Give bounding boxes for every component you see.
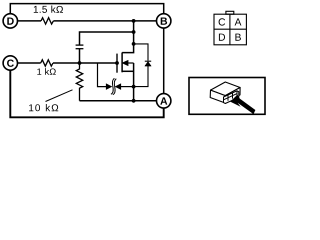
wire zener branch top [134,44,148,61]
node dot gate [115,61,119,65]
terminal C [3,56,17,70]
pin table [214,11,246,45]
junction dots [78,19,136,103]
wire top loop D to B [10,4,163,14]
wire D to resistor R1 [18,20,41,22]
node dot zener top [132,42,136,46]
label 1 kOhm [37,68,56,75]
terminal A [157,94,171,108]
node dot cap top [132,30,136,34]
label 10 kOhm [29,104,58,111]
zener diode D1 [145,61,151,65]
mosfet Q1 source stub [122,70,134,72]
resistor R2 1 kOhm [41,60,53,66]
capacitor C1 [76,45,84,49]
node dot cap bottom rail [78,61,82,65]
wire double-diode left leg [98,63,107,87]
mosfet Q1 channel bar [121,53,123,73]
wire capacitor top branch [80,32,134,45]
pin table labels [219,18,242,40]
connector view box [189,78,265,115]
wire resistor R2 to gate node [53,62,117,64]
node dot bottom [132,99,136,103]
mosfet Q1 drain stub [122,44,134,53]
wire source down to bottom node [133,63,135,101]
mosfet Q1 body arrow [123,61,128,66]
terminal B [157,14,171,28]
wire bottom node to A [80,100,157,102]
terminal D [3,14,17,28]
resistor R3 10 kOhm vertical [76,63,82,101]
leader line 10 kOhm [46,90,73,102]
connector icon pin block [224,91,239,104]
wire C down left side to bottom [10,71,163,118]
surge absorber double diode [107,78,134,94]
wire drain rail from top [133,21,135,44]
wire resistor R1 to B [53,20,156,22]
label 1.5 kOhm [34,6,63,13]
node dot top rail [132,19,136,23]
arrow pointer [230,95,255,115]
wire C to resistor R2 [18,62,41,64]
node dot diode line [132,85,136,89]
wire capacitor bottom to rail [79,49,81,63]
wire zener branch bottom [134,66,148,87]
wire B down to A [163,28,165,93]
wire A left [134,100,157,102]
resistor R1 1.5 kOhm [41,18,53,24]
connector icon body [210,82,240,103]
mosfet Q1 gate bar [116,54,118,73]
